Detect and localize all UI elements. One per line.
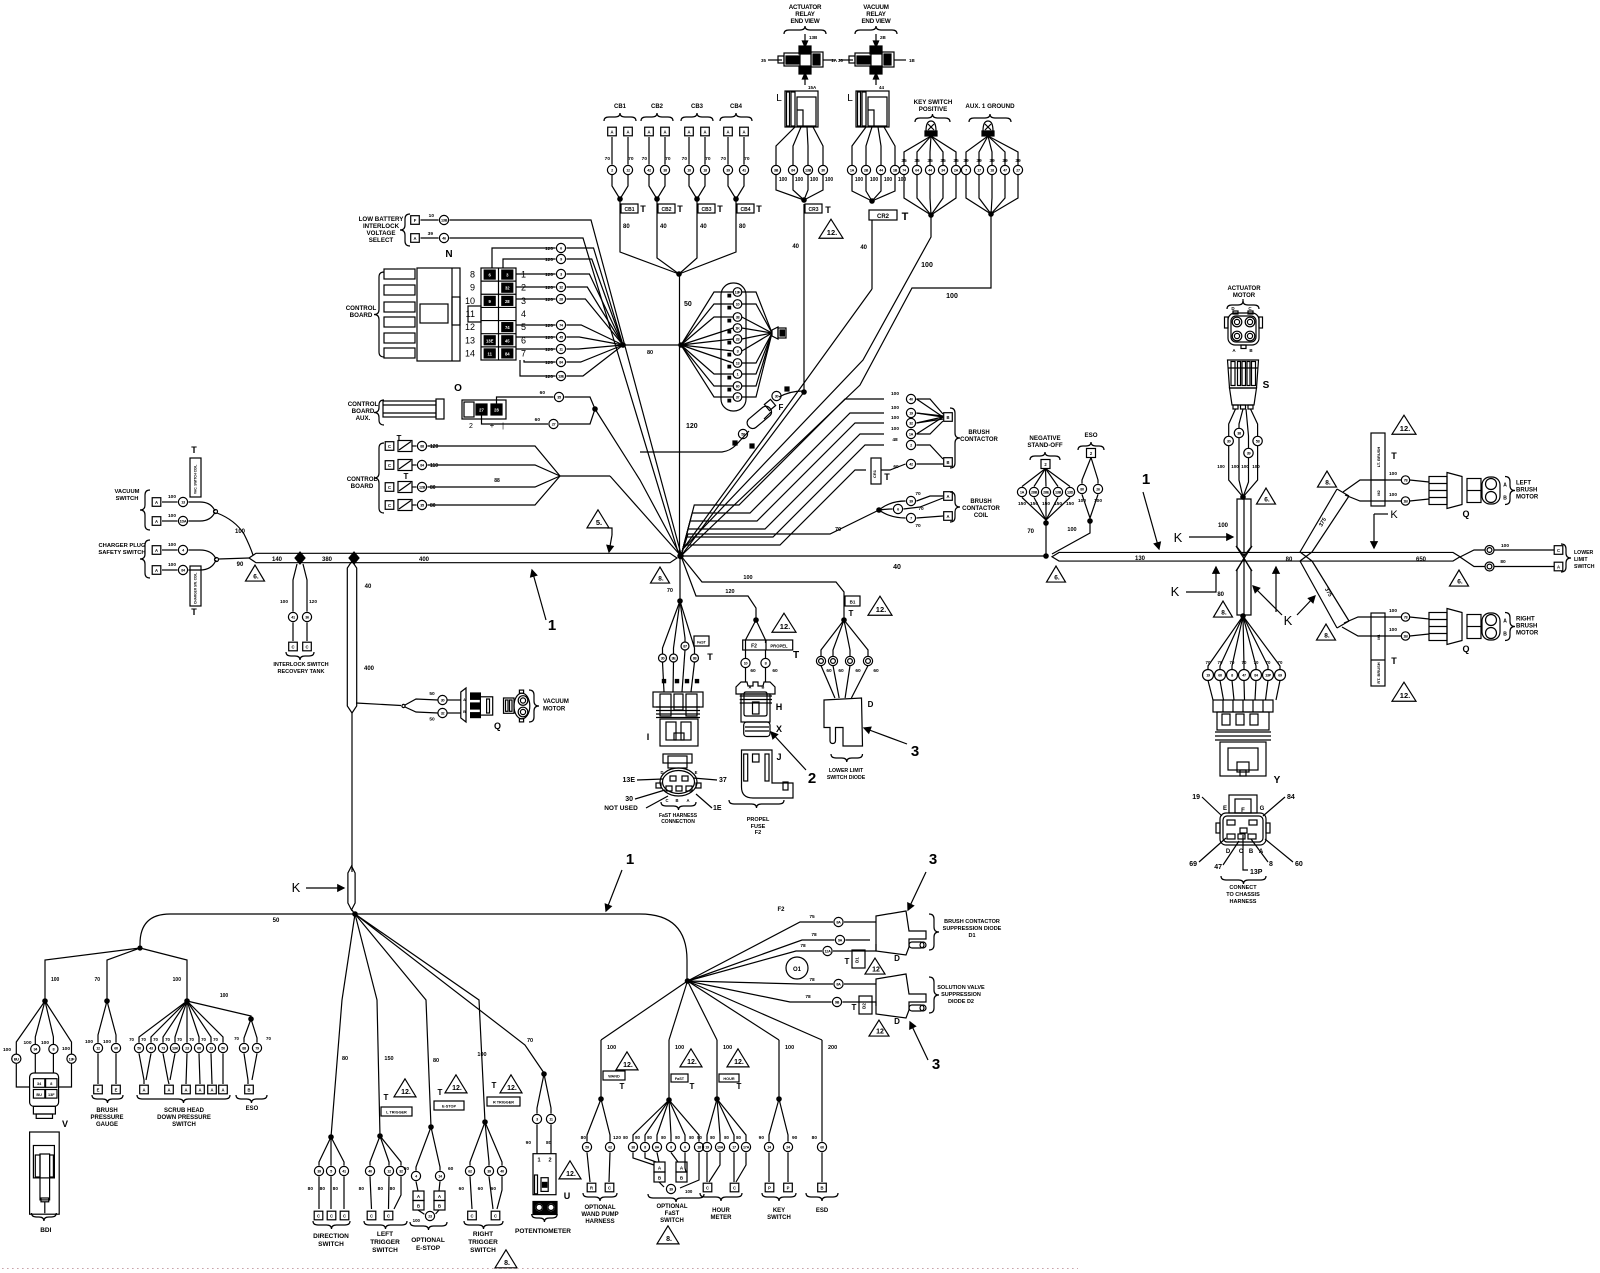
svg-text:30: 30 [821,169,825,173]
svg-text:40: 40 [365,584,372,590]
svg-text:12: 12 [465,322,475,332]
svg-text:WAND: WAND [608,1075,620,1079]
splices CR2 circuit [847,165,856,174]
svg-text:3: 3 [929,851,937,868]
svg-text:3: 3 [911,743,919,760]
svg-text:POSITIVE: POSITIVE [919,106,948,113]
svg-text:8.: 8. [1325,480,1331,487]
svg-text:5.: 5. [596,518,602,527]
svg-text:120: 120 [545,323,553,329]
svg-text:150: 150 [384,1056,393,1062]
svg-text:11: 11 [466,309,475,319]
scrub head down pressure switch tree [129,999,230,1128]
svg-text:BRUSH: BRUSH [970,499,991,505]
svg-text:100: 100 [685,1189,693,1194]
svg-text:100: 100 [62,1046,70,1052]
svg-text:2: 2 [548,1158,551,1164]
svg-text:13K: 13K [172,1047,179,1051]
svg-text:13F: 13F [735,291,742,295]
svg-text:KEY SWITCH: KEY SWITCH [914,99,953,106]
svg-text:SCRUB HEAD: SCRUB HEAD [164,1108,205,1114]
svg-text:T: T [717,204,723,214]
svg-text:100: 100 [1218,523,1229,529]
svg-text:50: 50 [429,717,435,723]
svg-text:T: T [620,1082,625,1091]
svg-text:SUPPRESSION: SUPPRESSION [941,992,981,998]
fuse tag D2 [859,996,872,1014]
triangle note 8 upper diag [1318,471,1337,487]
svg-text:CONTROL: CONTROL [348,401,379,408]
svg-text:70: 70 [266,1036,271,1041]
svg-text:DIODE D2: DIODE D2 [948,999,974,1005]
svg-text:120: 120 [545,246,553,252]
svg-text:100: 100 [1389,627,1397,633]
svg-text:C: C [291,644,294,649]
wires actuator relay to splices [776,127,795,165]
optional wand pump harness [581,981,688,1225]
connector S [1228,360,1270,409]
svg-text:90: 90 [759,1135,765,1141]
svg-text:L: L [776,93,782,104]
svg-text:70: 70 [527,1038,533,1044]
svg-text:10: 10 [736,303,740,307]
svg-text:39: 39 [726,169,730,173]
svg-text:80: 80 [812,1135,818,1141]
svg-text:3: 3 [536,1118,538,1122]
circuit breaker CB1 [604,104,679,274]
svg-text:70: 70 [153,1037,158,1042]
svg-text:FaST: FaST [697,641,707,645]
svg-text:STAND-OFF: STAND-OFF [1027,442,1063,449]
svg-text:13: 13 [465,335,475,345]
svg-text:A: A [647,129,650,134]
page edge dotted line [2,1268,1078,1270]
svg-text:HOUR: HOUR [723,1077,734,1081]
svg-text:12.: 12. [401,1089,411,1096]
svg-text:8: 8 [644,1146,646,1150]
wire hub feed [352,910,354,913]
svg-text:84: 84 [505,351,510,356]
svg-text:28: 28 [505,299,510,304]
svg-text:80: 80 [1217,592,1224,598]
svg-text:100: 100 [168,494,176,500]
svg-text:120: 120 [545,374,553,380]
svg-text:T: T [640,204,646,214]
svg-text:1B: 1B [1403,500,1408,504]
fuse tag D1 [852,950,865,968]
diagonal harness upper right 375 [1300,489,1349,561]
svg-text:T: T [845,957,850,966]
svg-text:60: 60 [404,1166,410,1172]
svg-text:6.: 6. [1264,497,1270,504]
svg-text:100: 100 [607,1045,616,1051]
svg-text:OPTIONAL: OPTIONAL [411,1237,445,1244]
svg-text:120: 120 [545,285,553,291]
svg-text:SWITCH: SWITCH [470,1247,496,1254]
svg-text:80: 80 [333,1186,339,1192]
wires trunk to splice block [681,292,733,345]
svg-text:47: 47 [1242,674,1246,678]
svg-text:19: 19 [705,1146,709,1150]
svg-text:13P: 13P [1265,674,1272,678]
svg-text:NOT USED: NOT USED [604,805,638,812]
svg-text:2B: 2B [880,35,887,40]
brush pressure gauge tree [85,999,124,1128]
svg-text:11: 11 [549,1118,553,1122]
svg-text:1B: 1B [909,58,916,63]
relay CR1 [871,458,881,484]
svg-text:ACTUATOR: ACTUATOR [1227,286,1261,292]
svg-text:D1: D1 [855,957,860,963]
svg-text:T: T [756,204,762,214]
svg-text:DOWN PRESSURE: DOWN PRESSURE [157,1115,211,1121]
svg-text:70: 70 [705,156,711,162]
svg-text:G: G [1260,806,1265,812]
fuse B1 tag [845,596,860,606]
svg-text:CONTROL: CONTROL [346,305,377,312]
relay socket L (vacuum) [856,91,889,127]
svg-text:A: A [726,129,729,134]
svg-text:T: T [384,1093,389,1102]
control board lower connector [347,434,681,556]
svg-text:26: 26 [1096,488,1100,492]
svg-text:12.: 12. [1400,424,1410,433]
svg-text:1K: 1K [735,327,740,331]
svg-text:73: 73 [161,1047,165,1051]
svg-text:70: 70 [1027,529,1034,535]
svg-text:120: 120 [545,347,553,353]
svg-text:35: 35 [927,158,933,164]
svg-text:78: 78 [811,932,817,938]
svg-text:13: 13 [736,362,740,366]
svg-text:T: T [707,652,713,662]
svg-text:C: C [494,1213,497,1218]
svg-text:80: 80 [433,1058,439,1064]
ESO tree bottom-left [187,993,271,1112]
svg-text:39: 39 [989,158,995,164]
main trunk wire to harness node [679,274,681,556]
svg-text:+: + [490,421,495,430]
svg-text:100: 100 [891,415,899,421]
svg-text:T: T [902,211,909,223]
svg-text:T: T [404,472,409,481]
control board 14-pin table [465,268,526,360]
svg-text:TRIGGER: TRIGGER [370,1239,400,1246]
svg-text:C: C [608,1185,611,1190]
svg-text:100: 100 [103,1039,111,1045]
svg-text:18: 18 [703,169,707,173]
svg-text:100: 100 [795,177,804,183]
svg-text:R: R [590,1185,593,1190]
svg-text:30: 30 [775,395,779,399]
svg-text:CB3: CB3 [701,207,711,213]
svg-text:WAND PUMP: WAND PUMP [581,1212,618,1218]
svg-text:E: E [115,1087,118,1092]
triangle note 6 S fan [1257,488,1276,504]
svg-text:100: 100 [220,993,229,999]
svg-text:MOTOR: MOTOR [1516,631,1539,637]
wire hub to left cluster [140,914,353,947]
svg-text:75: 75 [809,914,815,920]
svg-text:T: T [884,472,890,482]
svg-text:100: 100 [1389,608,1397,614]
svg-text:19A: 19A [717,1146,724,1150]
svg-text:BOARD: BOARD [352,408,375,415]
relay end view VACUUM [831,4,915,90]
svg-text:END VIEW: END VIEW [862,18,891,25]
svg-text:60: 60 [750,668,756,674]
circle O1 [786,957,808,979]
svg-text:100: 100 [891,405,899,411]
svg-text:BRUSH: BRUSH [968,430,989,436]
svg-text:13D: 13D [1067,491,1074,495]
svg-text:2B: 2B [864,169,869,173]
svg-text:14: 14 [465,348,475,358]
svg-text:28: 28 [494,408,499,413]
svg-text:70: 70 [177,1037,182,1042]
svg-text:U: U [564,1191,571,1201]
svg-text:8: 8 [1231,674,1233,678]
svg-text:40: 40 [500,1170,504,1174]
label vacuum motor [529,690,539,722]
svg-text:2: 2 [611,169,613,173]
svg-text:100: 100 [168,562,176,568]
svg-text:F2: F2 [751,644,757,650]
svg-text:6: 6 [897,508,899,512]
tag VAC. SWITCH COIL [190,458,201,497]
svg-text:28: 28 [559,298,563,302]
svg-text:6.: 6. [1457,579,1463,586]
svg-text:47: 47 [1214,864,1222,871]
svg-text:M2: M2 [1376,489,1381,495]
triangle note 8 below-left of cross [1214,601,1233,617]
svg-text:T: T [825,205,831,215]
junction CB bundle [677,272,681,276]
svg-text:70: 70 [234,1036,239,1041]
svg-text:19: 19 [909,412,913,416]
svg-text:70: 70 [129,1037,134,1042]
svg-text:39: 39 [487,1170,491,1174]
svg-text:45: 45 [505,338,510,343]
hour meter [688,981,751,1221]
svg-text:VACUUM: VACUUM [543,699,569,705]
svg-text:D: D [660,770,663,775]
svg-text:BRUSH: BRUSH [96,1108,117,1114]
lower limit switch [1460,543,1595,572]
svg-text:19: 19 [1206,674,1210,678]
relay CR3 [802,198,806,202]
svg-text:A: A [142,1087,145,1092]
svg-text:PROPEL: PROPEL [770,644,788,649]
svg-text:A: A [1503,619,1507,625]
svg-text:Y: Y [1274,775,1281,786]
svg-text:A: A [155,568,158,573]
svg-text:23: 23 [185,1047,189,1051]
triangle note 5 with arrow [587,510,609,528]
svg-text:A: A [663,129,666,134]
svg-text:A: A [946,494,949,499]
svg-text:6: 6 [684,1146,686,1150]
connector J [742,750,794,798]
svg-text:ESD: ESD [816,1208,829,1214]
svg-text:BU: BU [36,1093,42,1097]
svg-text:380: 380 [322,557,333,563]
svg-text:ACTUATOR: ACTUATOR [789,4,822,11]
svg-text:27: 27 [552,423,556,427]
svg-text:2: 2 [469,423,473,430]
svg-text:LIMIT: LIMIT [1574,557,1588,563]
svg-text:12.: 12. [780,622,790,631]
svg-text:80: 80 [390,1186,396,1192]
svg-text:100: 100 [855,177,864,183]
svg-text:60: 60 [820,1146,824,1150]
svg-text:RELAY: RELAY [795,11,815,18]
svg-text:37: 37 [736,396,740,400]
wire fan to brush contactor [681,399,884,556]
svg-text:3: 3 [560,273,562,277]
svg-text:12.: 12. [687,1059,697,1066]
svg-text:9B: 9B [835,1001,840,1005]
svg-text:40: 40 [909,398,913,402]
svg-text:VOLTAGE: VOLTAGE [367,230,396,237]
svg-text:50: 50 [137,1047,141,1051]
svg-text:88: 88 [420,445,424,449]
svg-text:C: C [665,798,668,803]
svg-text:VAC. SWITCH COIL: VAC. SWITCH COIL [194,465,198,494]
svg-text:CONTROL: CONTROL [347,476,378,483]
svg-text:3: 3 [521,296,526,306]
svg-text:4: 4 [521,309,526,319]
svg-text:K: K [1174,530,1183,545]
svg-text:60: 60 [459,1186,465,1192]
svg-text:90: 90 [792,1135,798,1141]
svg-text:35: 35 [557,396,561,400]
svg-text:100: 100 [1241,464,1249,469]
svg-text:100: 100 [675,1045,684,1051]
svg-text:87: 87 [683,645,687,649]
svg-text:SUPPRESSION DIODE: SUPPRESSION DIODE [943,926,1002,932]
direction switch [308,914,355,1248]
svg-text:80: 80 [359,1186,365,1192]
svg-text:80: 80 [1286,557,1293,563]
vacuum motor assembly [356,688,569,731]
svg-text:A: A [687,129,690,134]
svg-text:100: 100 [891,426,899,432]
wires splice block to pin W [742,292,772,333]
wires control board aux to splices [497,397,554,404]
svg-text:35: 35 [761,58,767,63]
junction diamond B [349,552,359,564]
aux 1 ground [681,103,1023,556]
svg-text:SWITCH DIODE: SWITCH DIODE [827,775,866,781]
BDI connector tree [3,999,76,1087]
svg-text:44: 44 [879,85,885,90]
svg-text:100: 100 [1252,464,1260,469]
svg-text:13E: 13E [558,375,565,379]
svg-text:8: 8 [470,270,475,280]
wire vertical to K segment [351,713,353,872]
svg-text:E-STOP: E-STOP [442,1105,457,1109]
svg-text:1: 1 [626,851,634,868]
svg-text:70: 70 [628,156,634,162]
svg-text:COIL: COIL [974,513,989,519]
svg-text:B: B [820,1185,823,1190]
svg-text:C: C [388,444,391,449]
svg-text:23: 23 [428,1215,432,1219]
svg-text:13B: 13B [809,35,818,40]
propel connector tree H [741,618,799,682]
svg-text:C: C [387,1213,390,1218]
svg-text:28B: 28B [1031,491,1038,495]
svg-text:SWITCH: SWITCH [767,1215,791,1221]
harness vertical above cross [1237,499,1251,556]
svg-text:T: T [690,1082,695,1091]
svg-text:2A: 2A [954,169,959,173]
svg-text:MOTOR: MOTOR [543,707,566,713]
svg-text:CB3: CB3 [691,104,704,110]
svg-text:A: A [463,698,466,702]
svg-text:36: 36 [305,616,309,620]
svg-text:80: 80 [623,224,630,230]
svg-text:SAFETY SWITCH: SAFETY SWITCH [98,550,145,556]
svg-text:88: 88 [494,478,500,484]
svg-text:8A: 8A [836,921,841,925]
svg-text:LOWER LIMIT: LOWER LIMIT [829,768,864,774]
svg-text:K: K [1390,509,1398,521]
svg-text:1B: 1B [1403,635,1408,639]
svg-text:D: D [894,954,900,963]
svg-text:OPTIONAL: OPTIONAL [657,1204,688,1210]
svg-text:100: 100 [1501,543,1509,549]
svg-text:70: 70 [1218,660,1223,665]
svg-text:1: 1 [737,373,739,377]
svg-text:120: 120 [545,297,553,303]
svg-text:CONTACTOR: CONTACTOR [962,506,1000,512]
svg-text:CR1: CR1 [872,469,877,478]
svg-text:39: 39 [909,500,913,504]
svg-text:38: 38 [1237,432,1241,436]
svg-text:INTERLOCK: INTERLOCK [363,223,400,230]
svg-text:12.: 12. [1400,691,1410,700]
svg-text:90: 90 [237,562,244,568]
svg-text:60: 60 [772,668,778,674]
svg-text:100: 100 [723,1045,732,1051]
svg-text:30: 30 [441,699,445,703]
svg-text:L TRIGGER: L TRIGGER [386,1111,407,1115]
svg-text:SWITCH: SWITCH [318,1241,344,1248]
svg-text:E: E [695,770,698,775]
svg-text:100: 100 [743,575,752,581]
svg-text:5: 5 [521,322,526,332]
svg-text:70: 70 [665,156,671,162]
svg-text:100: 100 [23,1040,31,1046]
svg-text:O1: O1 [793,967,802,973]
svg-text:13F: 13F [69,1057,76,1061]
svg-text:80: 80 [342,1056,348,1062]
svg-text:T: T [793,650,799,661]
svg-text:T: T [1391,451,1397,461]
svg-text:5: 5 [330,1170,332,1174]
svg-text:90: 90 [526,1140,532,1146]
svg-text:T: T [492,1081,497,1090]
svg-text:FaST: FaST [665,1211,680,1217]
splices CR3 circuit [771,165,780,174]
svg-text:100: 100 [1067,527,1076,533]
svg-text:78: 78 [809,977,815,983]
svg-text:50: 50 [273,918,280,924]
triangle note 6 near neg stand-off [1047,566,1066,582]
svg-text:80: 80 [623,1135,628,1140]
